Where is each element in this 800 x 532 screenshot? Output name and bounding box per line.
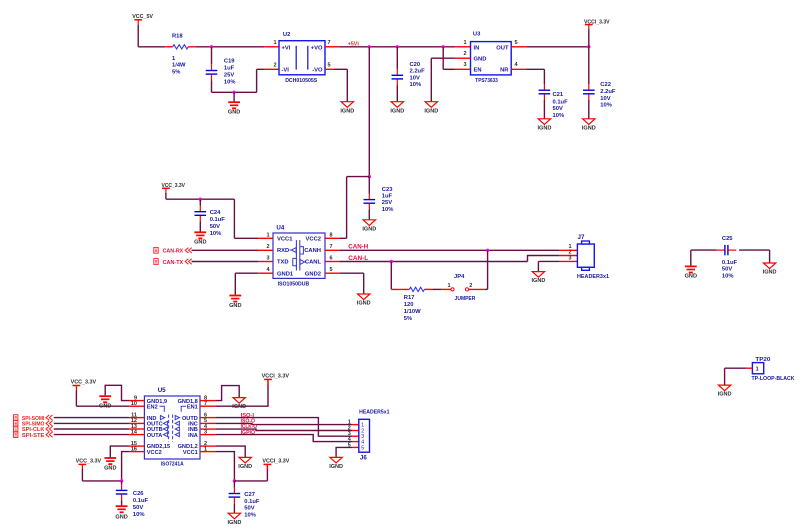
svg-text:JP4: JP4: [454, 274, 465, 280]
svg-text:50V: 50V: [210, 224, 220, 230]
svg-text:5%: 5%: [404, 316, 412, 322]
svg-text:VCC_3.3V: VCC_3.3V: [76, 459, 102, 465]
svg-text:VCC_3.3V: VCC_3.3V: [71, 380, 97, 386]
svg-text:C26: C26: [133, 491, 144, 497]
svg-text:RXD: RXD: [277, 248, 289, 254]
svg-text:C20: C20: [410, 62, 421, 68]
svg-text:IGND: IGND: [238, 464, 252, 470]
svg-text:TP20: TP20: [755, 357, 770, 363]
svg-text:TP-LOOP-BLACK: TP-LOOP-BLACK: [752, 376, 796, 382]
svg-text:10%: 10%: [410, 82, 422, 88]
svg-text:HEADER5x1: HEADER5x1: [359, 409, 390, 415]
svg-text:10%: 10%: [600, 102, 612, 108]
svg-text:25V: 25V: [224, 73, 234, 79]
svg-text:2: 2: [273, 62, 276, 68]
svg-text:5: 5: [361, 445, 364, 451]
svg-text:5%: 5%: [172, 70, 180, 76]
svg-text:TPS73633: TPS73633: [475, 78, 498, 84]
svg-text:GND: GND: [115, 515, 127, 521]
svg-text:C27: C27: [244, 492, 255, 498]
svg-text:U5: U5: [158, 387, 166, 394]
svg-text:VCC1: VCC1: [183, 450, 198, 456]
svg-text:R18: R18: [172, 34, 183, 40]
svg-text:OUT: OUT: [496, 46, 509, 52]
svg-text:10V: 10V: [600, 96, 610, 102]
svg-text:10%: 10%: [244, 513, 256, 519]
svg-text:VCCI_3.3V: VCCI_3.3V: [584, 19, 610, 25]
svg-text:3: 3: [463, 62, 466, 68]
svg-text:5: 5: [348, 442, 351, 448]
svg-text:C19: C19: [224, 59, 235, 65]
svg-text:EN: EN: [474, 68, 482, 74]
svg-text:SPI-STE: SPI-STE: [22, 433, 45, 439]
svg-text:+VI: +VI: [282, 45, 291, 51]
svg-text:10%: 10%: [210, 231, 222, 237]
svg-text:U4: U4: [276, 225, 284, 232]
svg-text:ISO1050DUB: ISO1050DUB: [278, 281, 310, 287]
svg-text:+5VI: +5VI: [348, 41, 359, 47]
svg-text:10%: 10%: [382, 207, 394, 213]
svg-text:1/4W: 1/4W: [172, 63, 186, 69]
svg-text:5: 5: [330, 267, 333, 273]
svg-text:2: 2: [463, 51, 466, 57]
svg-text:NR: NR: [500, 68, 509, 74]
svg-text:IGND: IGND: [532, 278, 546, 284]
svg-text:VCCI_3.3V: VCCI_3.3V: [262, 459, 289, 465]
svg-text:10%: 10%: [553, 113, 565, 119]
svg-text:10: 10: [131, 401, 137, 407]
svg-text:C21: C21: [553, 92, 564, 98]
svg-text:VCC_5V: VCC_5V: [132, 14, 153, 20]
svg-text:0.1uF: 0.1uF: [553, 99, 569, 105]
svg-text:CANH: CANH: [304, 248, 321, 254]
svg-text:IGND: IGND: [340, 108, 354, 114]
svg-text:CANL: CANL: [305, 260, 322, 266]
svg-text:CAN-H: CAN-H: [348, 244, 368, 250]
svg-text:IGND: IGND: [763, 270, 777, 276]
svg-text:IGND: IGND: [357, 301, 371, 307]
svg-text:10%: 10%: [722, 273, 734, 279]
svg-text:10%: 10%: [133, 512, 145, 518]
svg-text:GND: GND: [228, 110, 240, 116]
svg-text:3: 3: [568, 256, 571, 262]
svg-text:VCC1: VCC1: [277, 237, 293, 243]
svg-text:IGND: IGND: [232, 404, 246, 410]
svg-text:JUMPER: JUMPER: [455, 296, 476, 302]
svg-text:2: 2: [266, 244, 269, 250]
svg-text:VCC_3.3V: VCC_3.3V: [162, 183, 186, 189]
svg-text:8: 8: [330, 232, 333, 238]
svg-text:GND: GND: [194, 240, 206, 246]
svg-text:0.1uF: 0.1uF: [133, 498, 149, 504]
svg-text:IGND: IGND: [228, 520, 242, 526]
svg-text:1uF: 1uF: [224, 65, 235, 71]
svg-text:IGND: IGND: [424, 108, 438, 114]
svg-text:IGND: IGND: [718, 392, 732, 398]
svg-text:1: 1: [463, 40, 466, 46]
svg-text:6: 6: [330, 256, 333, 262]
svg-text:1: 1: [273, 40, 276, 46]
svg-text:CAN-RX: CAN-RX: [163, 249, 184, 255]
svg-text:120: 120: [404, 302, 414, 308]
svg-text:0.1uF: 0.1uF: [244, 499, 260, 505]
svg-text:GND: GND: [99, 404, 111, 410]
svg-text:VCCI_3.3V: VCCI_3.3V: [262, 374, 290, 380]
svg-text:7: 7: [204, 401, 207, 407]
svg-text:IGND: IGND: [582, 125, 596, 131]
svg-text:GND: GND: [474, 56, 487, 62]
svg-text:16: 16: [131, 446, 137, 452]
svg-text:IGND: IGND: [390, 108, 404, 114]
svg-text:1: 1: [266, 232, 269, 238]
svg-text:EN2: EN2: [147, 404, 158, 410]
svg-text:J7: J7: [578, 234, 585, 241]
svg-text:INA: INA: [188, 433, 198, 439]
svg-text:GND2: GND2: [305, 271, 321, 277]
svg-text:2: 2: [469, 283, 472, 289]
svg-text:IN: IN: [474, 46, 480, 52]
svg-text:50V: 50V: [244, 506, 254, 512]
svg-text:2.2uF: 2.2uF: [410, 69, 426, 75]
svg-text:50V: 50V: [133, 505, 143, 511]
svg-text:-VI: -VI: [282, 68, 290, 74]
svg-text:0.1uF: 0.1uF: [210, 217, 226, 223]
svg-text:IGND: IGND: [362, 226, 376, 232]
svg-text:1: 1: [447, 283, 450, 289]
svg-text:GND: GND: [685, 274, 697, 280]
svg-text:U3: U3: [473, 32, 481, 38]
svg-text:10%: 10%: [224, 80, 236, 86]
svg-text:C22: C22: [600, 82, 611, 88]
svg-text:-VO: -VO: [312, 68, 323, 74]
svg-text:25V: 25V: [382, 200, 392, 206]
svg-text:50V: 50V: [553, 106, 563, 112]
svg-text:OUTA: OUTA: [147, 433, 162, 439]
svg-text:7: 7: [330, 244, 333, 250]
svg-text:GND1: GND1: [277, 271, 294, 277]
svg-text:U2: U2: [283, 32, 290, 38]
svg-text:TXD: TXD: [277, 260, 289, 266]
svg-text:3: 3: [266, 256, 269, 262]
svg-text:DCH010505S: DCH010505S: [285, 78, 317, 84]
svg-text:IGND: IGND: [538, 125, 552, 131]
svg-text:3: 3: [204, 429, 207, 435]
svg-text:VCC2: VCC2: [306, 237, 321, 243]
svg-text:EN1: EN1: [187, 404, 198, 410]
svg-text:HEADER3x1: HEADER3x1: [577, 274, 610, 280]
svg-text:14: 14: [131, 429, 138, 435]
svg-text:IGND: IGND: [329, 464, 343, 470]
svg-text:50V: 50V: [722, 267, 732, 273]
svg-text:1: 1: [204, 446, 207, 452]
svg-text:2.2uF: 2.2uF: [600, 89, 616, 95]
svg-text:10V: 10V: [410, 75, 420, 81]
svg-text:C25: C25: [722, 236, 733, 242]
svg-text:J6: J6: [360, 455, 367, 462]
svg-text:1uF: 1uF: [382, 194, 393, 200]
svg-text:IGPIO: IGPIO: [241, 430, 256, 436]
svg-text:0.1uF: 0.1uF: [722, 260, 738, 266]
svg-text:C24: C24: [210, 210, 221, 216]
svg-text:CAN-L: CAN-L: [348, 256, 368, 262]
svg-text:CAN-TX: CAN-TX: [163, 260, 184, 266]
svg-text:5: 5: [515, 40, 518, 46]
svg-text:VCC2: VCC2: [147, 450, 162, 456]
svg-text:R17: R17: [404, 295, 415, 301]
svg-text:ISO7241A: ISO7241A: [161, 461, 185, 467]
svg-text:7: 7: [328, 40, 331, 46]
svg-text:GND: GND: [229, 303, 241, 309]
svg-text:C23: C23: [382, 187, 393, 193]
svg-text:1/10W: 1/10W: [404, 309, 421, 315]
svg-text:+VO: +VO: [311, 45, 323, 51]
svg-text:GND: GND: [104, 465, 116, 471]
svg-text:5: 5: [328, 62, 331, 68]
